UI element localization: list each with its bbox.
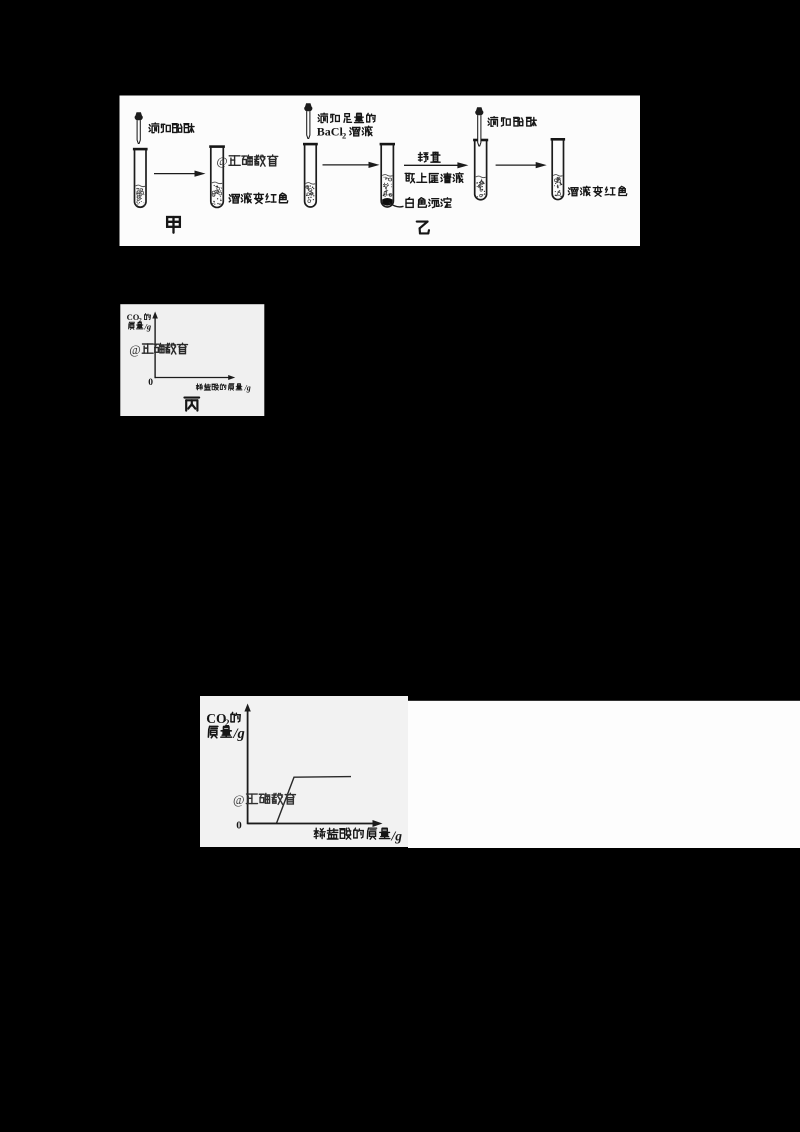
y-axis (panel 3) [244,704,250,825]
label JIA (甲) [167,217,180,233]
leader line to bai-se-chen-dian [389,203,404,207]
svg-text:@: @ [233,793,245,807]
watermark @zhengque-jiaoyu panel3 [233,793,295,807]
svg-text:CO: CO [206,711,226,726]
panel 3: big graph white box [200,696,408,847]
svg-text:0: 0 [236,820,242,832]
label YI (乙) [417,222,429,234]
arrow A3 [404,162,468,168]
panel 2: graph bing white box [120,304,264,416]
dropper D1 (over tube 1) [135,112,143,143]
label: BaCl2 rong-ye [317,125,372,141]
test tube 3 [303,144,318,207]
panel 1: experiment jia & yi white box [120,96,641,247]
x-axis (panel 2) [155,375,235,380]
label: di-jia-fen-tai right [488,117,536,127]
svg-text:/g: /g [391,829,403,844]
svg-text:CO: CO [127,312,140,322]
svg-text:2: 2 [342,130,346,140]
watermark @zhengque-jiaoyu panel1 [217,154,278,168]
x-axis (panel 3) [248,820,383,827]
label: jing-zhi (settle) [418,152,440,162]
x-axis label xi-yan-suan-de-zhi-liang /g (panel 2) [196,384,250,393]
svg-text:0: 0 [148,378,153,388]
label BING (丙) [184,398,199,411]
test tube 6 [551,139,566,199]
svg-text:/g: /g [144,321,152,331]
panel 3 right white band [408,701,800,848]
test tube 1 [133,149,148,207]
arrow A1 [154,171,206,177]
y-axis label CO2 de [127,312,151,324]
dropper D2 (BaCl2, over tube 3) [304,103,312,138]
svg-text:BaCl: BaCl [317,125,344,139]
y-axis label CO2 de (panel 3) [206,711,240,729]
label: di-jia-zu-liang-de (add sufficient) [318,113,375,122]
x-axis label xi-yan-suan-de-zhi-liang /g (panel 3) [314,828,402,843]
svg-text:@: @ [129,343,141,357]
watermark @zhengque-jiaoyu panel2 [129,343,187,357]
label: qu-shang-ceng-qing-ye (take supernatant) [405,173,463,183]
test tube 4 (with white precipitate) [380,144,395,207]
y-axis label zhi-liang /g (panel 3) [208,726,244,742]
svg-text:/g: /g [244,384,251,393]
svg-text:@: @ [217,154,228,168]
label: rong-ye-bian-hong-se right [568,186,626,196]
dropper D3 (into tube 5) [475,107,483,146]
arrow A4 [496,162,547,168]
label: bai-se-chen-dian (white precipitate) [406,198,451,208]
svg-text:/g: /g [233,726,245,742]
arrow A2 [323,162,380,168]
test tube 5 [473,140,488,200]
label: rong-ye-bian-hong-se (solution turns red) left [229,193,288,203]
label: di-jia-fen-tai (add phenolphthalein) left [149,123,194,133]
y-axis (panel 2) [152,312,158,379]
y-axis label zhi-liang /g [129,321,152,331]
curve: flat then rise then plateau [248,777,351,824]
test tube 2 [209,147,225,208]
